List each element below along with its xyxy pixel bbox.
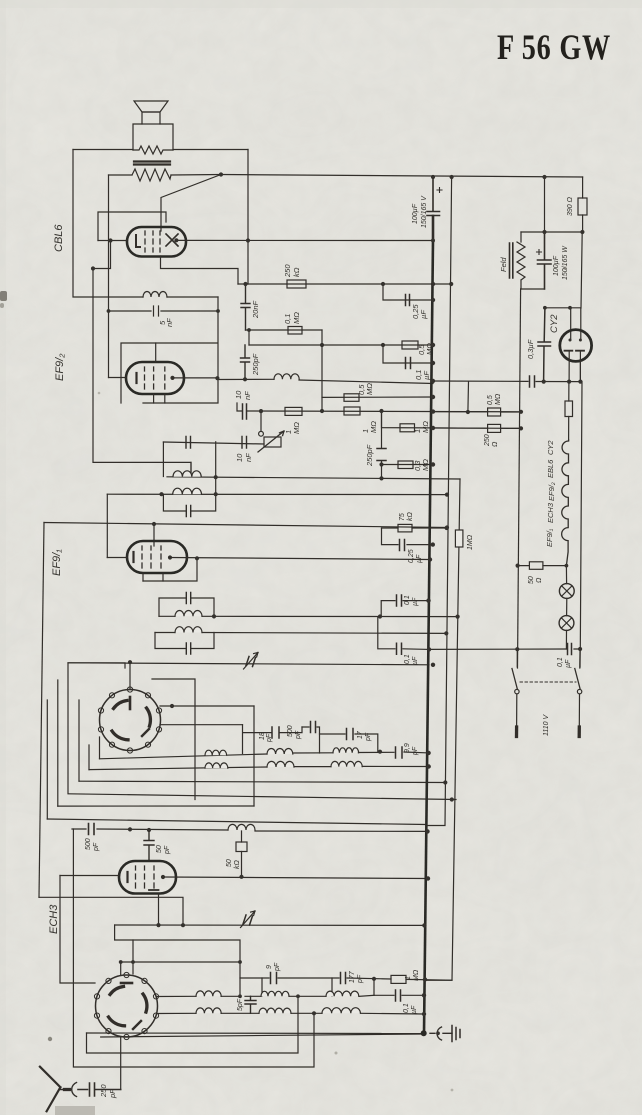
coil IF3a <box>173 471 201 477</box>
ECH3 grids <box>136 866 155 888</box>
svg-text:µF: µF <box>419 310 428 319</box>
svg-text:150/165 V: 150/165 V <box>421 195 428 228</box>
capacitor 500pF b <box>85 824 100 853</box>
wire row753 <box>100 752 429 759</box>
wire box1 outer <box>73 829 314 1067</box>
wire socket2 pin rows <box>157 996 196 1013</box>
speaker LS <box>134 101 168 124</box>
wire EF9/1 bottom box <box>143 558 197 581</box>
lamp 2 <box>559 616 574 631</box>
wire x254 <box>253 706 255 806</box>
coil Feld <box>499 232 525 289</box>
wire rail x73 <box>73 150 143 298</box>
wire row829 <box>72 829 428 831</box>
svg-text:9: 9 <box>266 965 273 969</box>
wire EF9/2 pins <box>109 343 219 403</box>
wire ECH3 left drop <box>60 876 95 984</box>
wire row525 <box>44 523 447 528</box>
svg-text:500: 500 <box>287 725 294 737</box>
ground symbol <box>430 1026 460 1042</box>
svg-text:pF: pF <box>274 962 281 972</box>
wire box EF9/2 <box>121 297 218 403</box>
wire rail x108 feedback <box>108 175 110 378</box>
capacitor 177pF <box>341 970 365 984</box>
coil osc1 <box>228 824 255 830</box>
wire row978 <box>240 978 452 980</box>
wire speaker loop <box>133 124 173 150</box>
svg-text:µF: µF <box>565 659 572 668</box>
wire EF9/1 pins <box>107 558 430 582</box>
svg-text:ECH3: ECH3 <box>546 502 555 523</box>
capacitor 17pF <box>347 729 373 743</box>
svg-text:0,1: 0,1 <box>404 595 411 605</box>
wire box x68 <box>68 663 125 794</box>
capacitor 250pF b <box>365 444 386 467</box>
wire row444 <box>163 442 264 444</box>
wire CBL6 left pin ext <box>98 240 111 242</box>
capacitor 0,1uF lamps <box>557 644 572 669</box>
wire row662 <box>68 663 429 665</box>
wire row925 <box>115 924 425 926</box>
wire x381 branch <box>381 411 383 478</box>
wire row616 <box>159 615 459 617</box>
capacitor loop1 <box>186 506 190 517</box>
coil BF1b <box>267 761 294 767</box>
ECH3 heptode bar <box>149 889 159 891</box>
svg-text:MΩ: MΩ <box>292 422 301 434</box>
tube EF9/2 <box>126 362 184 394</box>
wire row1013 coils <box>221 1012 424 1015</box>
coil osc2a <box>196 991 221 996</box>
svg-text:0,5: 0,5 <box>487 395 494 405</box>
svg-text:Ω: Ω <box>492 441 499 447</box>
EF9/1 cathode <box>132 552 134 562</box>
capacitor 100uF elco2 <box>537 232 570 289</box>
wire ECH3 pins <box>60 876 428 926</box>
trimmer C1 <box>244 653 259 670</box>
rail A <box>427 177 452 826</box>
coil BF0b <box>205 763 228 768</box>
capacitor 0,1uF c <box>397 643 420 665</box>
svg-text:nF: nF <box>243 391 252 400</box>
capacitor 5pF <box>237 996 256 1013</box>
coil BF2a <box>333 748 359 753</box>
svg-text:250: 250 <box>99 1084 108 1098</box>
svg-text:0,3µF: 0,3µF <box>526 339 535 359</box>
antenna <box>40 1067 61 1112</box>
wire row528 75k <box>382 527 447 529</box>
svg-text:Ω: Ω <box>536 577 543 583</box>
capacitor 0,3uF <box>526 308 551 382</box>
coil osc4a <box>326 991 359 996</box>
wire socket1 topright <box>152 679 195 800</box>
svg-text:20nF: 20nF <box>251 300 260 319</box>
svg-text:50: 50 <box>156 845 163 853</box>
svg-text:pF: pF <box>266 733 273 743</box>
svg-text:CY2: CY2 <box>549 314 560 333</box>
socket1 pins <box>98 687 161 753</box>
wire rail x93 <box>93 269 191 477</box>
wire CBL6 pins row240 <box>111 239 434 241</box>
svg-text:µF: µF <box>412 656 419 665</box>
wire stub x249 <box>248 330 250 345</box>
wire row149 left <box>73 149 133 151</box>
capacitor 18pF <box>259 727 279 743</box>
svg-text:µF: µF <box>416 554 423 563</box>
wire row330 <box>246 329 323 331</box>
socket1 electrodes <box>129 697 132 709</box>
wire coil row297 <box>167 296 218 298</box>
wire CY2 anode row308 <box>545 308 581 340</box>
svg-text:ECH3: ECH3 <box>48 904 60 934</box>
svg-text:pF: pF <box>93 842 100 852</box>
coil BF2b <box>331 761 362 766</box>
wire row632 <box>155 632 446 635</box>
EF9/2 anode dot <box>170 376 174 380</box>
resistor 1M d <box>391 969 420 983</box>
wire Feld bottom row289 <box>521 288 545 290</box>
wire row819 <box>47 819 426 825</box>
transformer secondary winding <box>132 169 171 181</box>
wire x468 <box>467 382 470 413</box>
svg-text:pF: pF <box>164 845 171 855</box>
wire anode diagonal <box>161 175 221 232</box>
wire box2 <box>87 996 299 1053</box>
svg-text:1: 1 <box>405 976 412 980</box>
capacitor 10nF a <box>234 390 252 419</box>
resistor 1M b <box>344 407 378 433</box>
resistor 0,3M <box>398 459 430 471</box>
svg-text:µF: µF <box>412 597 419 606</box>
svg-text:pF: pF <box>295 730 302 740</box>
EF9/2 cathode <box>135 373 137 383</box>
svg-text:0,1: 0,1 <box>404 654 411 664</box>
svg-text:MΩ: MΩ <box>369 421 378 433</box>
resistor 50k <box>226 831 247 877</box>
wire row177 <box>221 175 583 178</box>
resistor 250k <box>283 264 306 288</box>
wire x154 drop <box>153 524 155 546</box>
tube EF9/1 <box>127 541 187 573</box>
capacitor 99pF <box>396 743 420 758</box>
svg-text:MΩ: MΩ <box>365 383 374 395</box>
capacitor 10nF b <box>186 437 191 449</box>
svg-text:µF: µF <box>422 371 431 380</box>
wire row428 <box>382 411 522 428</box>
wire CBL6 grid loop <box>98 212 166 241</box>
wire row284 <box>238 283 452 285</box>
wire tap row462 <box>190 462 192 472</box>
svg-text:CBL6: CBL6 <box>53 224 65 252</box>
coil IF4b <box>175 627 202 633</box>
resistor heater <box>565 401 573 417</box>
wire rail x248 <box>247 150 249 285</box>
wire row600 <box>381 601 428 617</box>
svg-text:5pF: 5pF <box>237 998 244 1011</box>
capacitor 5nF <box>109 306 219 327</box>
wire row648 right <box>378 617 429 650</box>
wire row782 <box>79 781 445 782</box>
wire x215 drop <box>215 442 217 494</box>
capacitor 9pF <box>266 962 281 983</box>
svg-text:MΩ: MΩ <box>495 393 502 405</box>
wire row1033 <box>87 1032 424 1035</box>
wire row940 <box>115 925 240 962</box>
EF9/2 grids <box>145 367 165 389</box>
coil IF2a <box>274 374 299 379</box>
wire box3 <box>101 1034 423 1037</box>
svg-text:pF: pF <box>108 1089 117 1099</box>
CBL6 diode X <box>166 234 178 246</box>
resistor 0,5M right <box>487 393 502 416</box>
resistor 50ohm <box>528 562 543 584</box>
wire CBL6 cathode drop <box>93 241 111 269</box>
transformer core <box>134 162 170 165</box>
wire row727 500pF <box>302 727 320 753</box>
capacitor loop2 <box>186 593 190 604</box>
wire x242 <box>242 725 244 754</box>
wire row995 <box>374 994 424 996</box>
coil BF0a <box>205 750 227 755</box>
heater wavy chain <box>562 440 569 566</box>
wire row897 <box>39 897 183 925</box>
coil osc3b <box>259 1008 291 1013</box>
svg-text:500: 500 <box>85 838 92 850</box>
resistor 1M vert <box>455 530 474 550</box>
coil IF1a <box>143 292 167 298</box>
svg-text:10: 10 <box>235 453 244 462</box>
svg-text:MΩ: MΩ <box>413 969 420 981</box>
capacitor 250pF ant <box>78 1083 121 1099</box>
ECH3 anode dot <box>161 875 165 879</box>
capacitor 20nF <box>241 284 260 330</box>
ECH3 cathode <box>126 872 128 882</box>
wire row411 right <box>433 411 521 413</box>
socket2 electrodes <box>121 982 132 985</box>
wire 390 col <box>580 177 583 668</box>
svg-text:100µF: 100µF <box>553 255 560 276</box>
wire CBL6 bottom row268 <box>161 256 239 284</box>
wire row477 <box>167 477 460 479</box>
svg-text:177: 177 <box>349 970 356 983</box>
resistor 0,5M b <box>344 383 374 402</box>
tube CBL6 <box>127 227 186 257</box>
EF9/1 grids <box>142 546 161 568</box>
wire row381 <box>433 380 580 383</box>
antenna plug <box>60 1083 76 1097</box>
coil osc3a <box>261 991 289 996</box>
wire row345 <box>249 344 433 346</box>
wire row544 <box>382 528 433 545</box>
wire heater to wavy <box>568 417 570 441</box>
svg-text:10: 10 <box>234 390 243 399</box>
tube ECH3 <box>119 861 176 894</box>
svg-text:pF: pF <box>412 746 419 756</box>
svg-text:390 Ω: 390 Ω <box>567 196 574 216</box>
wire socket2 bottom <box>120 1037 122 1090</box>
wire x544 top <box>544 177 546 232</box>
svg-text:nF: nF <box>165 318 174 327</box>
tube CY2 <box>560 330 592 362</box>
svg-text:50: 50 <box>528 576 535 584</box>
wire rail x107 <box>106 494 108 557</box>
svg-text:17: 17 <box>357 730 364 739</box>
potentiometer with arrow <box>258 411 284 452</box>
capacitor 250pF a <box>241 345 261 379</box>
CBL6 cathode <box>136 235 140 247</box>
wire staircase verticals <box>47 680 99 819</box>
wire cap loop 598 <box>159 598 214 616</box>
svg-text:0,1: 0,1 <box>403 1003 410 1013</box>
capacitor 0,25uF b <box>400 540 424 564</box>
socket2 octal <box>94 972 158 1039</box>
svg-text:MΩ: MΩ <box>421 459 430 471</box>
wire lamp col <box>565 566 567 649</box>
capacitor 0,1uF b <box>397 595 420 606</box>
rail power left <box>518 289 521 668</box>
wire cap loop 494 <box>163 494 215 511</box>
wire socket1 pin rows <box>160 706 254 725</box>
svg-text:0,25: 0,25 <box>408 549 415 563</box>
resistor 250ohm <box>484 424 501 447</box>
gang dashes <box>520 681 576 683</box>
heater labels <box>545 440 556 547</box>
svg-text:EBL6: EBL6 <box>546 459 555 478</box>
svg-text:kΩ: kΩ <box>234 860 241 870</box>
wire row962 <box>121 961 240 963</box>
coil IF4a <box>175 611 202 617</box>
resistor 1M c <box>400 421 430 433</box>
capacitor 10nF c <box>235 437 253 463</box>
EF9/1 anode dot <box>168 555 172 559</box>
wire row428 right <box>433 427 521 429</box>
wire socket2 feeds <box>121 940 133 976</box>
switch S1 <box>512 649 519 736</box>
svg-text:1110 V: 1110 V <box>543 714 550 736</box>
resistor hum-coil <box>133 146 173 154</box>
wire coil2 row379 <box>218 379 433 383</box>
resistor 390 <box>567 196 587 216</box>
capacitor 0,1uF d <box>396 990 419 1014</box>
coil IF3b <box>173 488 202 494</box>
svg-text:CY2: CY2 <box>546 440 555 455</box>
bus main <box>424 241 433 1034</box>
coil osc4b <box>322 1008 360 1014</box>
svg-text:nF: nF <box>244 453 253 462</box>
svg-text:250: 250 <box>283 264 292 278</box>
socket1 octal <box>98 687 161 753</box>
svg-text:EF9/₂: EF9/₂ <box>54 353 66 381</box>
wire heater col <box>568 382 570 401</box>
wire secondary leads <box>109 174 222 177</box>
wire row232 <box>521 231 583 233</box>
resistor 0,5M a <box>402 341 434 355</box>
wire row363 <box>383 345 433 363</box>
wire row565 <box>518 565 567 567</box>
coil osc2b <box>196 1008 221 1013</box>
lamp 1 <box>559 584 574 599</box>
wire row300 <box>383 284 433 300</box>
wire row806 <box>58 805 254 807</box>
capacitor loop3 <box>186 643 190 654</box>
svg-text:kΩ: kΩ <box>292 267 301 277</box>
capacitor row381 <box>530 376 535 387</box>
wire x163 drop <box>162 442 164 477</box>
svg-text:MΩ: MΩ <box>421 421 430 433</box>
svg-text:250pF: 250pF <box>251 353 260 376</box>
coil BF1a <box>267 748 293 754</box>
svg-text:F 56 GW: F 56 GW <box>497 27 611 67</box>
wire row649 <box>429 648 580 650</box>
capacitor 50pF <box>144 830 171 861</box>
wire row766 <box>89 766 429 769</box>
capacitor 100uF elco1 <box>412 177 442 241</box>
wire taps 978 <box>262 978 374 996</box>
svg-text:EF9/₂: EF9/₂ <box>547 482 556 501</box>
resistor 1M a <box>284 407 302 434</box>
wire CY2 cathode drops <box>569 361 580 382</box>
resistor 0,1M <box>283 312 302 334</box>
capacitor 0,1uF a <box>406 358 432 381</box>
wire row397 <box>322 396 433 398</box>
svg-text:1MΩ: 1MΩ <box>467 534 474 550</box>
svg-text:100µF: 100µF <box>412 203 419 224</box>
wire row464 <box>382 464 434 466</box>
svg-text:75: 75 <box>399 513 406 521</box>
wire x44 left box <box>39 523 44 898</box>
capacitor 0,25uF a <box>406 295 429 320</box>
rail B <box>426 479 461 980</box>
resistor 75k <box>398 512 414 532</box>
wire row734 17pF <box>320 734 378 752</box>
wire x322 <box>321 330 323 411</box>
svg-text:9,9: 9,9 <box>404 743 411 753</box>
svg-text:250pF: 250pF <box>365 444 374 467</box>
svg-text:0,1: 0,1 <box>557 657 564 667</box>
svg-text:0,1: 0,1 <box>283 314 292 324</box>
wire row149 right <box>173 149 248 151</box>
svg-text:50: 50 <box>226 859 233 867</box>
svg-text:MΩ: MΩ <box>292 312 301 324</box>
wire row799 <box>69 794 456 800</box>
trimmer C2 <box>241 911 256 928</box>
svg-text:18: 18 <box>259 732 266 740</box>
wire row494 <box>107 493 447 495</box>
svg-text:250: 250 <box>484 434 491 447</box>
svg-text:Feld: Feld <box>499 257 508 272</box>
svg-text:µF: µF <box>411 1005 418 1014</box>
capacitor 500pF a <box>287 722 316 741</box>
svg-text:EF9/₁: EF9/₁ <box>545 528 554 547</box>
svg-text:pF: pF <box>365 732 372 742</box>
bus blob <box>421 1030 427 1036</box>
wire row732 18pF <box>243 727 302 733</box>
svg-text:pF: pF <box>357 974 364 984</box>
wire row411 <box>237 403 521 412</box>
switch S2 <box>575 649 582 737</box>
svg-text:150/165 W: 150/165 W <box>562 245 569 280</box>
svg-text:EF9/₁: EF9/₁ <box>51 549 63 576</box>
wire socket1 feed <box>129 662 131 690</box>
wire row996 coils <box>221 962 374 996</box>
CBL6 grids <box>145 231 160 252</box>
wire cap loop 648 <box>155 633 214 649</box>
svg-text:kΩ: kΩ <box>407 512 414 522</box>
